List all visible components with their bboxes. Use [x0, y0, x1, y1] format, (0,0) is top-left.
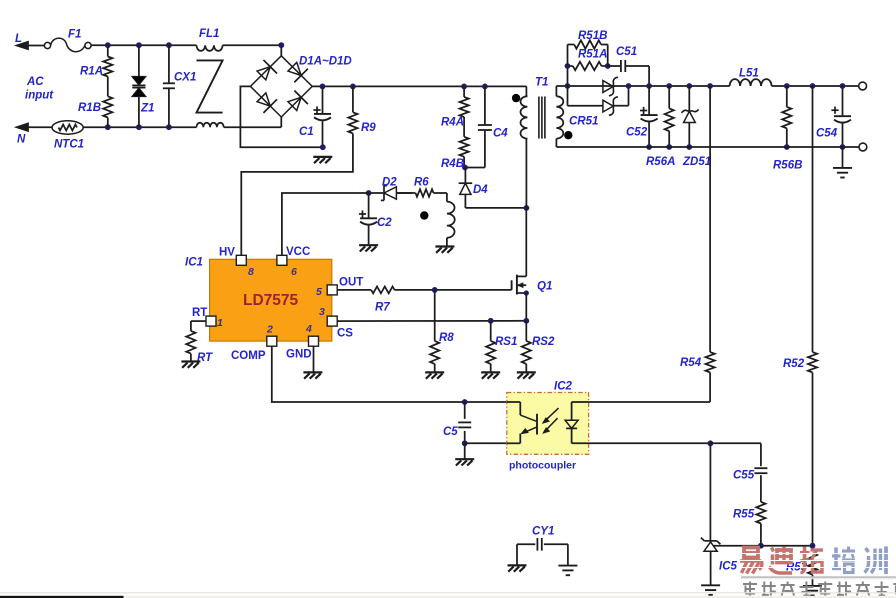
- node junction CR51 cathode: [626, 83, 632, 89]
- pin 4 GND: [286, 323, 319, 361]
- ground (RS2): [517, 372, 536, 378]
- resistor RS1: [486, 321, 517, 372]
- node junction D2/C2/VCC: [366, 190, 372, 196]
- pin 6 VCC: [277, 246, 310, 278]
- svg-text:3: 3: [319, 306, 325, 318]
- node junction C51/C52: [646, 83, 652, 89]
- svg-text:RS1: RS1: [495, 336, 517, 348]
- svg-text:HV: HV: [219, 247, 235, 259]
- svg-text:CR51: CR51: [569, 116, 598, 128]
- svg-text:NTC1: NTC1: [54, 139, 84, 151]
- svg-text:R55: R55: [733, 509, 755, 521]
- node junction R51 left: [565, 63, 571, 69]
- node junction bottom R1B: [105, 124, 111, 130]
- ground (C2): [359, 245, 378, 251]
- ground (primary, C1): [313, 157, 332, 163]
- svg-text:RS2: RS2: [532, 336, 555, 348]
- svg-text:L51: L51: [739, 68, 759, 80]
- svg-text:CS: CS: [337, 328, 353, 340]
- svg-text:LD7575: LD7575: [243, 292, 299, 309]
- wire (L rail to FL1): [91, 44, 196, 46]
- label AC input: [25, 76, 54, 102]
- node junction IC5 cathode: [708, 440, 714, 446]
- wire (N rail into bridge): [280, 117, 282, 127]
- transistor Q1 (power MOSFET): [512, 275, 553, 295]
- inductor aux winding (T1 bias): [420, 202, 455, 246]
- wire (D4 to drain node): [465, 207, 526, 209]
- resistor RT: [186, 321, 213, 364]
- node junction R4B/C4/D4: [462, 165, 468, 171]
- ground (IC1 GND): [303, 372, 322, 378]
- wire (FL1 to bridge top): [223, 44, 282, 46]
- svg-text:C2: C2: [377, 217, 392, 229]
- wire (COMP to photocoupler): [272, 346, 507, 402]
- capacitor C2 (VCC filter): [359, 193, 392, 244]
- diode ZD51 (zener clamp): [682, 86, 712, 168]
- capacitor C4 (snubber): [465, 86, 508, 167]
- svg-text:1: 1: [217, 317, 223, 329]
- diode CR51 (output rectifier, dual): [568, 77, 629, 127]
- svg-text:C1: C1: [299, 126, 314, 138]
- ground (RT): [181, 362, 200, 368]
- resistor R6: [397, 177, 434, 197]
- svg-text:IC1: IC1: [185, 257, 203, 269]
- svg-text:2: 2: [266, 324, 273, 336]
- svg-text:AC: AC: [26, 76, 44, 88]
- node junction C54 bottom: [840, 144, 846, 150]
- wire (OUT pin to R7): [337, 289, 371, 291]
- resistor R54: [680, 86, 715, 402]
- svg-text:C51: C51: [616, 46, 637, 58]
- ground (CY1 secondary side): [558, 566, 577, 576]
- svg-text:C52: C52: [626, 127, 648, 139]
- node junction R56B top: [784, 83, 790, 89]
- node junction R52 tap: [810, 83, 816, 89]
- wire footer black bar: [0, 596, 896, 598]
- svg-text:FL1: FL1: [199, 28, 219, 40]
- wire (Q1 source to RS node): [525, 293, 527, 321]
- wire (CS pin to current sense): [337, 320, 526, 322]
- node junction R56B bottom: [784, 144, 790, 150]
- transformer T1: [512, 77, 573, 208]
- pin 5 OUT: [316, 277, 363, 299]
- svg-text:COMP: COMP: [231, 350, 266, 362]
- wire (feedback divider): [761, 545, 813, 547]
- resistor R52: [783, 86, 817, 546]
- node junction bottom CX1: [166, 124, 172, 130]
- ground (CY1 primary side): [508, 565, 527, 571]
- svg-text:R51A: R51A: [578, 49, 607, 61]
- node junction R54 tap: [707, 83, 713, 89]
- svg-text:Q1: Q1: [537, 281, 552, 293]
- node junction R8/gate: [432, 287, 438, 293]
- svg-text:T1: T1: [535, 77, 548, 89]
- wire (R6 to aux winding): [434, 193, 447, 202]
- wire (GND pin down): [313, 346, 315, 372]
- wire (FL1 to bridge bottom): [224, 126, 282, 128]
- varistor Z1 (bidirectional clamp): [132, 45, 155, 127]
- ground (IC5): [701, 585, 720, 595]
- node junction RS1 top: [488, 318, 494, 324]
- node junction ZD51 top: [686, 83, 692, 89]
- wire (top rail into bridge): [280, 45, 282, 56]
- capacitor C1 (bulk electrolytic): [299, 86, 331, 147]
- node junction R4A top: [461, 84, 467, 90]
- svg-text:Z1: Z1: [140, 103, 154, 115]
- node junction R56A top: [666, 83, 672, 89]
- svg-text:R52: R52: [783, 358, 805, 370]
- svg-text:CY1: CY1: [532, 526, 554, 538]
- svg-text:GND: GND: [286, 349, 312, 361]
- svg-text:R51B: R51B: [578, 30, 607, 42]
- ground (R53): [803, 586, 822, 596]
- ground (R8): [425, 372, 444, 378]
- pin 2 COMP: [231, 324, 277, 363]
- node junction R52/R53: [810, 543, 816, 549]
- svg-text:R4B: R4B: [441, 158, 464, 170]
- op-amp U1 IC1 LD7575 (PWM controller): [185, 257, 332, 342]
- wire (secondary bottom rail): [556, 146, 859, 148]
- svg-text:OUT: OUT: [339, 277, 363, 289]
- pin 8 HV: [219, 247, 254, 279]
- inductor FL1 (common-mode choke): [196, 28, 223, 127]
- svg-text:D1A~D1D: D1A~D1D: [299, 56, 352, 68]
- wire (photocoupler LED cathode to IC5): [589, 442, 711, 444]
- node junction bridge top: [278, 42, 284, 48]
- node junction drain/D4: [524, 205, 530, 211]
- diode D4 (clamp): [459, 168, 489, 208]
- svg-text:F1: F1: [68, 29, 81, 41]
- svg-text:R6: R6: [414, 177, 429, 189]
- node junction C52 bottom: [646, 144, 652, 150]
- svg-text:R54: R54: [680, 357, 702, 369]
- wire (transformer primary to Q1 drain): [525, 208, 527, 277]
- svg-text:R8: R8: [439, 332, 454, 344]
- wire (main HV rail): [312, 85, 526, 87]
- capacitor C52 (output filter): [626, 86, 658, 147]
- node output+ terminal: [859, 82, 867, 90]
- node junction C1 bottom: [320, 144, 326, 150]
- svg-text:5: 5: [316, 286, 322, 298]
- svg-text:R56B: R56B: [773, 160, 802, 172]
- resistor R8: [430, 290, 454, 372]
- capacitor C54 (output): [816, 86, 851, 147]
- svg-text:ZD51: ZD51: [682, 156, 711, 168]
- resistor R9: [348, 86, 376, 134]
- svg-text:C5: C5: [443, 426, 458, 438]
- wire (R4A to R4B): [463, 117, 465, 137]
- label watermark 易迪拓培训: [739, 547, 893, 575]
- wire (R9 to HV pin): [241, 133, 353, 255]
- resistor R55: [733, 502, 766, 546]
- thermistor NTC1: [52, 121, 84, 151]
- capacitor CX1: [163, 45, 196, 127]
- ground (secondary output): [833, 147, 852, 178]
- pin 3 CS: [319, 306, 353, 340]
- svg-text:C54: C54: [816, 128, 838, 140]
- node output- terminal: [859, 143, 867, 151]
- op-amp U2 IC2 photocoupler: [507, 381, 589, 472]
- svg-text:C4: C4: [493, 128, 508, 140]
- ground (aux winding): [435, 247, 454, 253]
- node junction R55 bottom: [758, 543, 764, 549]
- capacitor CY1 (Y-cap): [517, 526, 568, 566]
- wire watermark divider: [741, 577, 896, 579]
- wire footer light line: [0, 592, 896, 594]
- label watermark 射频和天线设计专家: [743, 582, 896, 596]
- svg-text:6: 6: [291, 266, 297, 278]
- node L (AC line input terminal): [15, 33, 45, 49]
- node junction R9 top: [350, 84, 356, 90]
- svg-text:8: 8: [248, 266, 254, 278]
- node junction top CX1: [166, 42, 172, 48]
- inductor L51: [730, 68, 772, 87]
- node junction C5 top: [462, 399, 468, 405]
- node junction C5 bottom: [462, 440, 468, 446]
- node junction C1 top: [320, 84, 326, 90]
- wire (VCC feed): [282, 193, 369, 255]
- resistor R51A: [568, 49, 608, 87]
- wire (bridge negative to C1 ground): [240, 86, 322, 147]
- svg-text:IC2: IC2: [554, 381, 573, 393]
- node junction RS2 top: [523, 318, 529, 324]
- wire (R7 to Q1 gate): [395, 289, 512, 291]
- resistor R56A: [646, 86, 675, 168]
- resistor R1A: [80, 45, 112, 77]
- wire (photocoupler collector to R54): [589, 401, 711, 403]
- capacitor C51 (snubber): [608, 46, 649, 86]
- node junction C54 top: [840, 83, 846, 89]
- ground (C5): [455, 443, 474, 465]
- svg-text:RT: RT: [192, 307, 207, 319]
- wire (photocoupler LED-side bottom): [465, 442, 507, 444]
- diode D2 (VCC rectifier): [369, 177, 413, 201]
- resistor R4B: [441, 137, 469, 170]
- resistor R56B: [773, 86, 802, 172]
- node junction bottom Z1: [136, 124, 142, 130]
- svg-text:CX1: CX1: [174, 72, 196, 84]
- node junction top Z1: [136, 42, 142, 48]
- node junction Q1 source/body: [524, 290, 529, 295]
- wire (N rail to FL1): [83, 126, 196, 128]
- capacitor C55 (compensation): [710, 443, 767, 502]
- node junction C4 top: [482, 84, 488, 90]
- node junction top R1A: [105, 42, 111, 48]
- svg-text:R1B: R1B: [78, 102, 101, 114]
- fuse F1: [44, 29, 91, 52]
- pin 1 RT: [192, 307, 223, 329]
- svg-text:L: L: [15, 33, 22, 45]
- node junction R56A bottom: [666, 144, 672, 150]
- svg-text:input: input: [25, 90, 54, 102]
- diode IC5 (TL431 shunt regulator): [701, 443, 761, 585]
- svg-text:IC5: IC5: [719, 561, 738, 573]
- resistor R1B: [78, 96, 112, 127]
- capacitor C5: [443, 402, 471, 443]
- ground (RS1): [481, 372, 500, 378]
- svg-text:C55: C55: [733, 470, 755, 482]
- node junction R51 right: [605, 63, 611, 69]
- resistor R4A: [441, 86, 469, 128]
- wire (secondary top rail): [568, 85, 730, 87]
- resistor R51B: [568, 30, 608, 66]
- resistor R7: [371, 287, 394, 314]
- svg-text:R9: R9: [361, 122, 376, 134]
- svg-text:photocoupler: photocoupler: [509, 460, 576, 472]
- svg-text:D4: D4: [473, 184, 488, 196]
- svg-text:VCC: VCC: [286, 246, 310, 258]
- resistor R53: [786, 553, 817, 585]
- svg-text:R4A: R4A: [441, 117, 464, 129]
- node junction ZD51 bottom: [686, 144, 692, 150]
- svg-text:R1A: R1A: [80, 66, 103, 78]
- diode bridge D1A~D1D: [250, 56, 351, 118]
- node junction secondary top: [565, 83, 571, 89]
- svg-text:4: 4: [305, 323, 312, 335]
- wire (secondary top rail after L51): [772, 85, 859, 87]
- node N (AC neutral input terminal): [17, 124, 53, 146]
- wire (R1A to R1B): [107, 77, 109, 97]
- svg-text:D2: D2: [382, 177, 397, 189]
- svg-text:R56A: R56A: [646, 156, 675, 168]
- svg-text:R7: R7: [375, 302, 390, 314]
- resistor RS2: [522, 321, 555, 372]
- svg-text:N: N: [17, 134, 26, 146]
